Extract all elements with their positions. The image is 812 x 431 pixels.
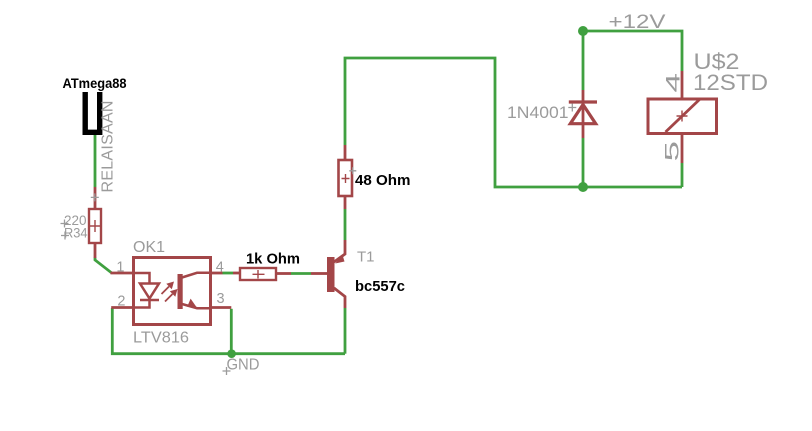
svg-text:12STD: 12STD [693,70,768,95]
svg-text:48 Ohm: 48 Ohm [355,173,411,189]
svg-text:1N4001: 1N4001 [507,103,569,122]
svg-text:RELAISAAN: RELAISAAN [100,101,117,193]
svg-text:1: 1 [116,260,124,276]
svg-text:5: 5 [662,141,683,162]
svg-text:OK1: OK1 [133,239,165,256]
svg-text:4: 4 [216,260,224,276]
svg-text:+12V: +12V [609,12,666,33]
svg-text:4: 4 [662,73,684,93]
svg-text:ATmega88: ATmega88 [63,76,127,91]
svg-text:1k Ohm: 1k Ohm [246,252,300,268]
svg-text:T1: T1 [357,249,375,266]
svg-text:3: 3 [217,291,225,307]
svg-text:GND: GND [227,357,260,374]
svg-text:LTV816: LTV816 [133,330,189,347]
svg-text:bc557c: bc557c [355,279,405,295]
svg-text:R34: R34 [64,225,88,241]
svg-text:2: 2 [117,294,125,310]
